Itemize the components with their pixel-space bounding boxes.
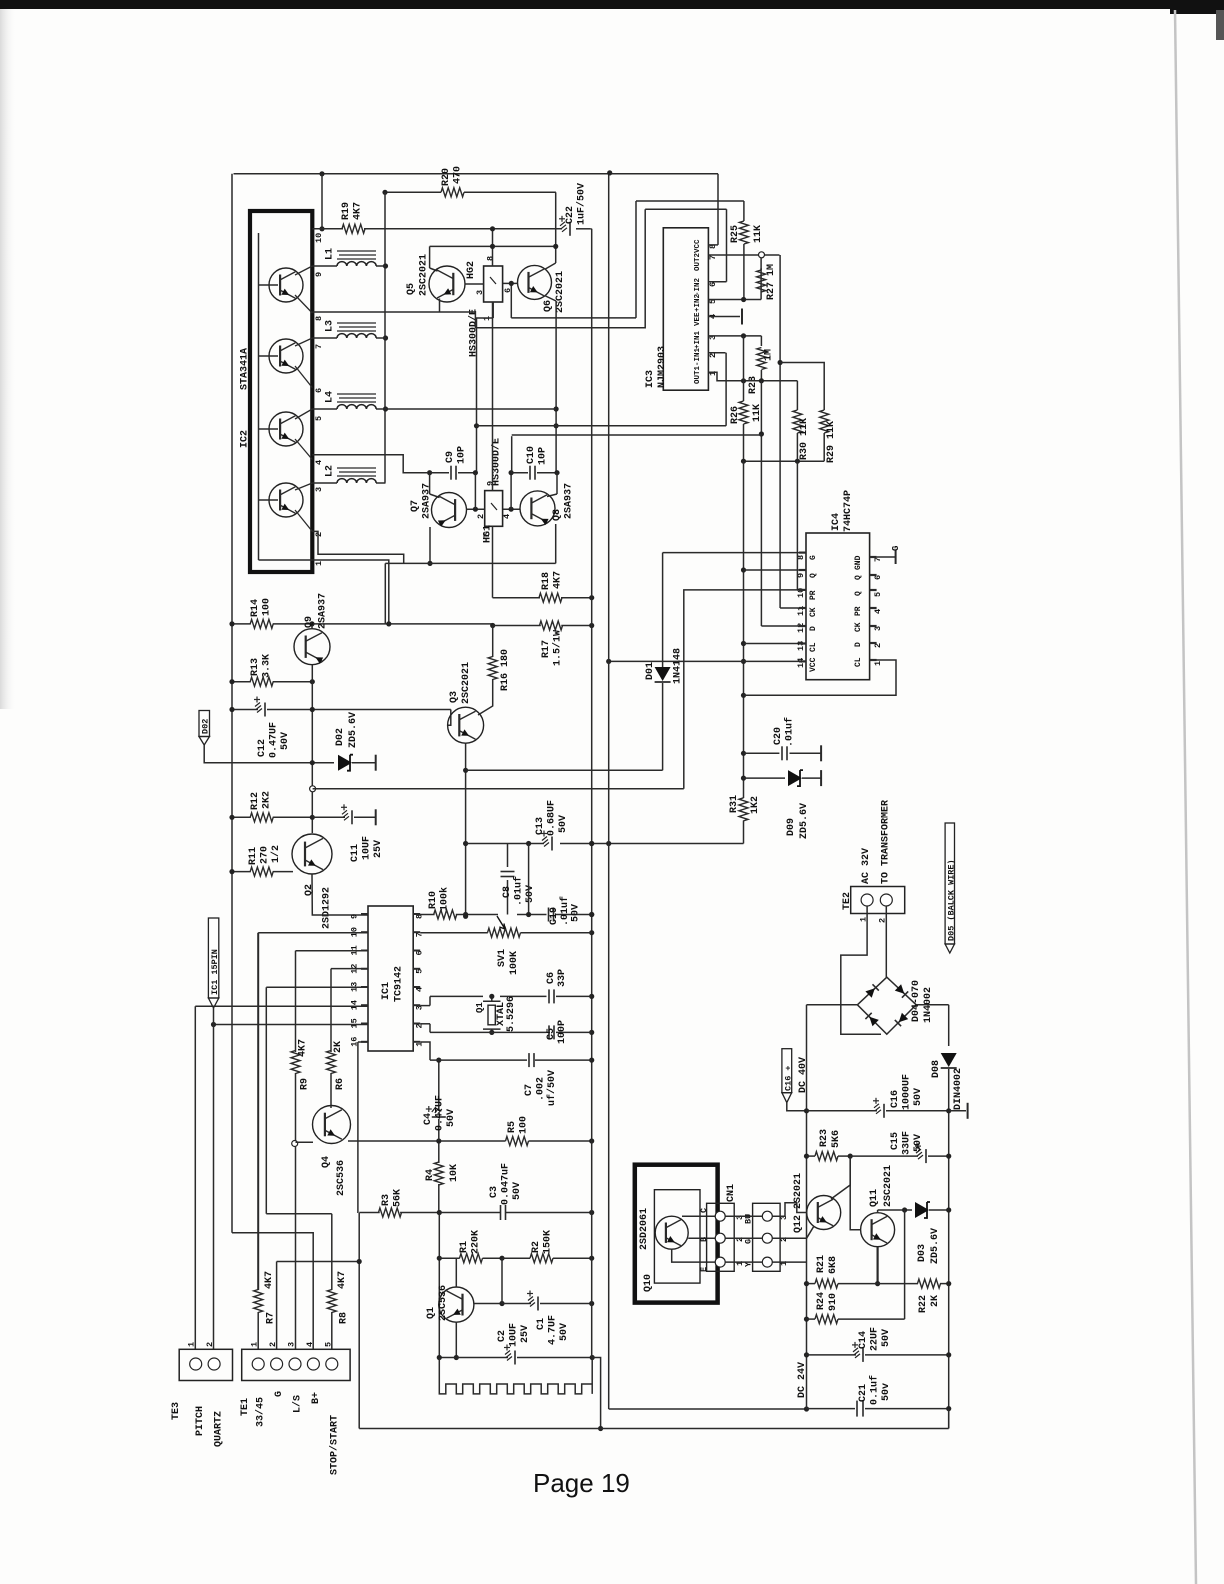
node: collector rail right junction xyxy=(553,244,558,249)
diode D01 1N4148 xyxy=(662,553,664,667)
svg-text:R23: R23 xyxy=(819,1129,830,1147)
svg-text:Q5: Q5 xyxy=(406,283,417,295)
wire: IC1 pin16 to R3/G junction xyxy=(358,1041,368,1043)
svg-text:Q8: Q8 xyxy=(552,509,563,521)
svg-text:10UF: 10UF xyxy=(362,836,373,860)
node: L3 junction xyxy=(383,335,388,340)
wire: R30R29 bus to pin10 join xyxy=(796,461,798,590)
wire: Q10 leads to CN1 xyxy=(682,1215,716,1217)
svg-text:.01uf: .01uf xyxy=(784,717,796,747)
capacitor C14 22UF xyxy=(853,1348,860,1358)
wire: C2 line to bottom rail xyxy=(592,1358,600,1429)
wire: VCC drop to IC3 pin8 xyxy=(717,174,719,245)
node: R29 tap xyxy=(778,360,783,365)
svg-text:1.5/1W: 1.5/1W xyxy=(552,630,564,666)
wire: XTAL rail1 y=996.4 xyxy=(429,996,431,1005)
svg-text:R11: R11 xyxy=(248,847,259,865)
wire: IC1 pin12 to R6 xyxy=(331,968,368,970)
capacitor C4 xyxy=(438,1060,440,1111)
svg-text:14: 14 xyxy=(796,658,806,668)
resistor R26 11K xyxy=(743,336,745,401)
resistor R9 4K7 xyxy=(291,1051,300,1074)
svg-text:4K7: 4K7 xyxy=(298,1039,309,1057)
svg-text:AC 32V: AC 32V xyxy=(861,848,872,884)
wire: IC4 pin9 line xyxy=(744,569,807,571)
wire: IC3 pin4 VEE terminator xyxy=(708,316,740,318)
svg-text:CN1: CN1 xyxy=(726,1184,737,1202)
svg-text:ZD5.6V: ZD5.6V xyxy=(799,803,810,839)
bus: raw supply x=948.7 xyxy=(948,1005,950,1046)
svg-text:TE3: TE3 xyxy=(171,1402,182,1420)
wire: HG2 pin1 vertical down xyxy=(492,302,494,318)
svg-text:Q11: Q11 xyxy=(869,1189,880,1207)
svg-text:B+: B+ xyxy=(311,1392,322,1404)
svg-text:R16 180: R16 180 xyxy=(500,649,511,691)
node: C20 tap xyxy=(741,751,746,756)
svg-text:L3: L3 xyxy=(325,320,336,332)
svg-text:5K6: 5K6 xyxy=(831,1130,842,1148)
svg-text:50v: 50v xyxy=(881,1383,892,1401)
svg-text:+IN2: +IN2 xyxy=(694,293,702,312)
wire: line A to IC3 -IN1 xyxy=(477,425,727,427)
svg-text:D05 (BALCK WIRE): D05 (BALCK WIRE) xyxy=(947,859,957,941)
transistor Q10 2SD2061 xyxy=(655,1216,688,1249)
svg-text:2SC536: 2SC536 xyxy=(438,1285,449,1321)
wire: Q1 collector xyxy=(455,1258,457,1287)
diode D08 DIN4002 xyxy=(941,1053,957,1067)
wire: CN1 interconnects xyxy=(725,1215,762,1217)
inductor L1 xyxy=(312,265,337,267)
svg-text:11K: 11K xyxy=(752,404,763,422)
wire: D01 return line y=770.3 xyxy=(466,769,663,771)
svg-text:3.3K: 3.3K xyxy=(262,654,273,678)
svg-text:PR: PR xyxy=(809,590,818,600)
svg-text:TC9142: TC9142 xyxy=(394,966,405,1002)
node: pin13 tap xyxy=(741,641,746,646)
Q10 module thick box xyxy=(635,1165,718,1303)
resistor R4 10K xyxy=(434,1162,443,1185)
svg-text:D03: D03 xyxy=(917,1244,928,1262)
capacitor C5 100P xyxy=(548,1025,550,1039)
svg-text:R26: R26 xyxy=(730,406,741,424)
svg-text:PR: PR xyxy=(854,606,863,616)
svg-text:R13: R13 xyxy=(250,658,261,676)
wire: IC3 pin6 -IN2 xyxy=(708,281,726,283)
svg-text:L/S: L/S xyxy=(292,1395,304,1413)
svg-text:Q4: Q4 xyxy=(321,1156,332,1168)
wire: coil common bus x=385 xyxy=(384,192,386,482)
svg-text:10P: 10P xyxy=(457,446,468,464)
svg-text:50V: 50V xyxy=(512,1182,523,1200)
capacitor C9 xyxy=(430,472,449,474)
resistor R6 2K xyxy=(330,969,332,1052)
wire: Q1 base line with C1 xyxy=(474,1303,502,1305)
svg-text:150K: 150K xyxy=(543,1230,554,1254)
wire: Q6 collector to R20 rail xyxy=(555,192,557,263)
wire: C14 line y=1354.9 xyxy=(804,1352,809,1357)
svg-text:DC 40V: DC 40V xyxy=(798,1057,809,1093)
wire: D01 to IC4 pin8 xyxy=(663,552,806,554)
crystal Q1 XTAL xyxy=(483,1000,501,1002)
svg-text:C1: C1 xyxy=(536,1318,547,1330)
wire: Q9 emitter vertical xyxy=(311,665,313,833)
wire: IC1 pin14 PITCH xyxy=(195,1005,368,1007)
wire: HG1 pin9 pin7 vertical xyxy=(492,302,494,491)
svg-text:470: 470 xyxy=(453,166,464,184)
wire: IC3 pin5 +IN2 xyxy=(708,299,761,301)
svg-text:TO TRANSFORMER: TO TRANSFORMER xyxy=(881,800,892,884)
svg-text:C21: C21 xyxy=(858,1384,869,1402)
svg-text:R22: R22 xyxy=(918,1295,929,1313)
wire: Q7 base to HG1 pin2 xyxy=(467,508,485,510)
IC1 pin stubs xyxy=(361,913,368,915)
svg-text:2K2: 2K2 xyxy=(262,791,273,809)
svg-text:Q: Q xyxy=(854,591,863,596)
wire: B+ rail to TE1 pin4 xyxy=(232,1233,313,1350)
transistor Q6 2SC2021 xyxy=(518,265,552,299)
capacitor C6 33P xyxy=(548,989,550,1003)
svg-text:56K: 56K xyxy=(393,1189,404,1207)
wire: IC2 pin2 jog to emitter rail xyxy=(312,531,403,563)
svg-text:C13: C13 xyxy=(535,817,546,835)
Q10 inner rect xyxy=(654,1190,700,1283)
wire: Q5 base to HG2 pin3 xyxy=(465,283,484,285)
ground bar after C16 xyxy=(949,1110,966,1112)
svg-text:TE1: TE1 xyxy=(240,1398,251,1416)
wire: OUT1 bus down x=761.4 xyxy=(760,381,762,626)
svg-text:910: 910 xyxy=(828,1293,839,1311)
wire: CN1 pin2 to Q12 emitter xyxy=(772,1226,814,1238)
svg-text:Q2: Q2 xyxy=(304,884,315,896)
wire: line B from Q8 base node xyxy=(511,436,513,473)
wire: bottom rail xyxy=(359,1428,949,1430)
svg-text:2K: 2K xyxy=(333,1041,344,1053)
svg-text:C19: C19 xyxy=(549,907,560,925)
svg-text:G: G xyxy=(891,546,901,551)
resistor R20 xyxy=(441,188,464,197)
svg-text:2SA937: 2SA937 xyxy=(422,483,433,519)
wire: IC2 pin1 to Q9 rail xyxy=(312,560,389,624)
wire: Q5 emitter rail to IC2 pin8 xyxy=(312,311,475,313)
node: junction top border xyxy=(319,171,324,176)
svg-text:1: 1 xyxy=(314,561,324,566)
wire: Q7 emitter xyxy=(429,527,431,563)
capacitor C10 xyxy=(511,472,528,474)
wire: Q11 collector / D03 line xyxy=(877,1210,879,1213)
wire: C7 line y=1060.1 xyxy=(420,1042,430,1060)
svg-text:R17: R17 xyxy=(541,640,552,658)
node: bus dots x=591.7 xyxy=(589,841,594,846)
svg-text:GND: GND xyxy=(854,555,863,570)
svg-text:C2: C2 xyxy=(497,1330,508,1342)
svg-text:R24: R24 xyxy=(816,1292,827,1310)
svg-text:2SD1292: 2SD1292 xyxy=(322,887,333,929)
IC2 internal transistor 1 xyxy=(269,268,303,302)
svg-text:Q3: Q3 xyxy=(449,691,460,703)
wire: Q5 emitter sense to -IN2 xyxy=(475,209,645,328)
node: L4 junction xyxy=(383,406,388,411)
svg-text:22UF: 22UF xyxy=(870,1327,881,1351)
node: pin9 tap xyxy=(741,567,746,572)
svg-text:50V: 50V xyxy=(558,815,569,833)
svg-text:L4: L4 xyxy=(325,391,336,403)
node: phase node junction xyxy=(554,423,559,428)
resistor R11 xyxy=(232,871,251,873)
svg-text:-IN1: -IN1 xyxy=(694,347,702,366)
svg-text:SV1: SV1 xyxy=(497,949,508,967)
wire: L/S vertical with R9 xyxy=(295,951,297,1052)
resistor R16 180 xyxy=(492,626,494,658)
transistor Q11 2SC2021 xyxy=(861,1213,895,1247)
capacitor C3 xyxy=(439,1212,500,1214)
svg-text:R6: R6 xyxy=(335,1078,346,1090)
IC2 internal base rail xyxy=(258,233,260,552)
svg-text:1: 1 xyxy=(873,661,883,666)
node: junction line-A xyxy=(474,423,479,428)
svg-text:Q6: Q6 xyxy=(543,300,554,312)
transistor Q12 2SC2021 xyxy=(807,1196,841,1230)
svg-text:IC1 15PIN: IC1 15PIN xyxy=(210,949,220,995)
svg-text:50V: 50V xyxy=(525,885,536,903)
wire: C21 line y=1408.6 xyxy=(807,1408,856,1410)
flag C16 + xyxy=(782,1049,792,1093)
svg-text:STA341A: STA341A xyxy=(240,348,251,390)
wire: R3 line y=1212.5 xyxy=(359,1212,380,1214)
potentiometer SV1 100K xyxy=(488,928,521,937)
svg-text:4.7UF: 4.7UF xyxy=(548,1315,559,1345)
wire: Q11 base xyxy=(850,1156,860,1230)
svg-text:PITCH: PITCH xyxy=(195,1406,206,1436)
svg-text:VEE: VEE xyxy=(694,312,702,326)
svg-text:220K: 220K xyxy=(471,1230,482,1254)
svg-text:D: D xyxy=(809,626,818,631)
IC3 NJM2903 box xyxy=(663,228,708,390)
svg-text:uf/50V: uf/50V xyxy=(546,1070,558,1106)
svg-text:+IN1: +IN1 xyxy=(694,330,702,349)
IC4 74HC74P box xyxy=(806,533,870,680)
svg-text:2SD2061: 2SD2061 xyxy=(639,1208,650,1250)
svg-text:C15: C15 xyxy=(890,1132,901,1150)
svg-text:L1: L1 xyxy=(325,248,336,260)
wire: Q3 base C12 line handled above / Q3 emitter down xyxy=(465,743,467,916)
svg-text:Q9: Q9 xyxy=(304,616,315,628)
svg-text:R4: R4 xyxy=(425,1169,436,1181)
svg-text:50V: 50V xyxy=(559,1323,570,1341)
capacitor C13 xyxy=(542,837,549,847)
resistor R23 5K6 xyxy=(815,1152,838,1161)
svg-text:33P: 33P xyxy=(557,969,568,987)
svg-text:IC4: IC4 xyxy=(831,513,842,531)
wire: IC3 +IN2 feed line y=201 xyxy=(636,200,744,202)
svg-text:C16 +: C16 + xyxy=(784,1065,794,1091)
svg-text:4: 4 xyxy=(873,609,883,614)
resistor R21 6K8 xyxy=(815,1279,838,1288)
svg-text:CL: CL xyxy=(809,642,818,652)
node: C9 right junction xyxy=(473,470,478,475)
svg-text:NJM2903: NJM2903 xyxy=(657,346,668,388)
wire: Q4 emitter line xyxy=(348,1140,506,1142)
svg-text:B: B xyxy=(699,1237,709,1242)
svg-text:50V: 50V xyxy=(913,1088,924,1106)
inductor L4 xyxy=(312,408,337,410)
wire: IC3 pin1 OUT1 xyxy=(708,372,797,381)
wire: Q6 base sense to +IN2 xyxy=(511,317,636,319)
svg-text:ZD5.6V: ZD5.6V xyxy=(930,1228,941,1264)
svg-text:C12: C12 xyxy=(257,739,268,757)
wire: rail y=843.5 xyxy=(466,843,544,845)
svg-text:QUARTZ: QUARTZ xyxy=(214,1411,225,1447)
wire: Q2 emitter to IC1 pin9 xyxy=(312,874,368,915)
svg-text:8: 8 xyxy=(486,256,496,261)
svg-text:R7: R7 xyxy=(266,1312,277,1324)
wire: OUT2 bus down xyxy=(779,255,781,608)
svg-text:14: 14 xyxy=(350,1000,360,1010)
svg-text:10: 10 xyxy=(314,233,324,243)
IC4 pin stubs left xyxy=(799,551,806,553)
svg-text:G: G xyxy=(274,1391,285,1397)
svg-text:C22: C22 xyxy=(565,206,576,224)
svg-text:R12: R12 xyxy=(250,792,261,810)
IC2 internal transistor 2 xyxy=(269,339,303,373)
wire: IC4 pin14 line xyxy=(609,660,806,662)
svg-text:R10: R10 xyxy=(428,891,439,909)
svg-text:100P: 100P xyxy=(557,1020,568,1044)
wire: R18 line xyxy=(493,597,541,599)
wire: HG1 pin4 to Q8 base xyxy=(503,508,520,510)
svg-text:100K: 100K xyxy=(509,951,520,975)
zener D03 ZD5.6V xyxy=(915,1202,929,1218)
bus: vertical x=591.7 xyxy=(591,229,593,1357)
wire: IC3 pin3 +IN1 xyxy=(708,335,761,337)
svg-text:10P: 10P xyxy=(538,447,549,465)
svg-text:C6: C6 xyxy=(546,972,557,984)
wire: IC1 pin15 QUARTZ xyxy=(214,1024,369,1026)
svg-text:50V: 50V xyxy=(913,1134,924,1152)
capacitor C21 0.1uf xyxy=(856,1401,858,1417)
svg-text:5.5296: 5.5296 xyxy=(506,996,517,1032)
svg-text:CK: CK xyxy=(809,607,818,617)
svg-text:9: 9 xyxy=(350,914,360,919)
resistor R25 xyxy=(743,201,745,221)
svg-text:C: C xyxy=(699,1208,709,1213)
svg-text:100: 100 xyxy=(519,1116,530,1134)
svg-text:100: 100 xyxy=(262,598,273,616)
svg-text:R25: R25 xyxy=(730,225,741,243)
connector CN1 box1 xyxy=(707,1203,735,1271)
svg-text:Q1: Q1 xyxy=(426,1307,437,1319)
svg-text:4: 4 xyxy=(502,514,512,519)
wire: R24 line y=1319.1 xyxy=(804,1317,809,1322)
resistor R12 xyxy=(232,816,251,818)
svg-text:6: 6 xyxy=(314,388,324,393)
svg-text:C3: C3 xyxy=(489,1186,500,1198)
svg-text:Q10: Q10 xyxy=(643,1274,654,1292)
svg-text:0.68UF: 0.68UF xyxy=(547,800,558,836)
resistor R27 1M xyxy=(760,268,762,299)
svg-text:50V: 50V xyxy=(881,1329,892,1347)
svg-text:50V: 50V xyxy=(446,1109,457,1127)
wire: Q9 line y=623.9 continuation xyxy=(295,623,493,625)
svg-text:R18: R18 xyxy=(541,572,552,590)
wire: HG2 pin8 vertical xyxy=(492,229,494,266)
svg-text:R29 11K: R29 11K xyxy=(826,421,837,463)
svg-text:1K2: 1K2 xyxy=(750,796,761,814)
svg-text:25V: 25V xyxy=(373,840,384,858)
resistor R19 xyxy=(342,224,365,233)
node: pin14 tap xyxy=(741,659,746,664)
svg-text:HS300D/E: HS300D/E xyxy=(468,309,480,357)
wire: bridge left to DC40V bus xyxy=(807,1004,858,1006)
svg-text:.01uf: .01uf xyxy=(513,876,525,906)
inductor L2 xyxy=(312,482,337,484)
svg-text:100k: 100k xyxy=(439,887,451,911)
svg-text:Q7: Q7 xyxy=(410,500,421,512)
transistor Q2 2SD1292 xyxy=(292,834,332,874)
flag D02 xyxy=(199,711,210,737)
svg-text:R2: R2 xyxy=(531,1241,542,1253)
resistor R1 220K xyxy=(460,1254,483,1263)
transistor Q3 2SC2021 xyxy=(448,710,451,726)
svg-text:Page 19: Page 19 xyxy=(533,1468,630,1498)
svg-text:1: 1 xyxy=(250,1342,260,1347)
svg-text:2: 2 xyxy=(708,353,718,358)
svg-text:D02: D02 xyxy=(201,719,211,734)
wire: left border rail (B+) xyxy=(231,174,233,1233)
svg-text:C7: C7 xyxy=(524,1084,535,1096)
resistor R30 11K xyxy=(796,381,798,410)
svg-text:3: 3 xyxy=(475,290,485,295)
flag D05 (BALCK WIRE) xyxy=(945,823,954,944)
wire: IC1 pin10 to TE1 33/45 xyxy=(258,932,368,934)
transistor Q8 2SA937 xyxy=(556,473,558,494)
svg-text:10K: 10K xyxy=(449,1164,460,1182)
svg-text:D08: D08 xyxy=(931,1060,942,1078)
wire: mid bus x=743.5 down xyxy=(743,461,745,798)
wire: R20 rail y=192.3 xyxy=(385,191,441,193)
svg-text:5: 5 xyxy=(323,1342,333,1347)
svg-text:C8: C8 xyxy=(502,886,513,898)
svg-text:74HC74P: 74HC74P xyxy=(843,490,854,532)
wire: right bus to bottom rail xyxy=(948,1409,950,1429)
svg-text:DIN4002: DIN4002 xyxy=(953,1068,964,1110)
svg-text:4: 4 xyxy=(305,1342,315,1347)
connector TE3 xyxy=(179,1349,232,1380)
wire: C2 line y=1357.5 xyxy=(439,1357,508,1359)
connector CN1 box2 xyxy=(753,1203,781,1271)
svg-text:13: 13 xyxy=(796,641,806,651)
svg-text:33UF: 33UF xyxy=(902,1131,913,1155)
node: D09 tap xyxy=(741,776,746,781)
svg-text:IC3: IC3 xyxy=(645,370,656,388)
resistor R14 xyxy=(232,623,251,625)
svg-text:0.47UF: 0.47UF xyxy=(435,1095,446,1131)
node: C10 left junction xyxy=(509,470,514,475)
wire: R21 R22 line y=1283.6 xyxy=(804,1281,809,1286)
wire: IC4 pin1 loop xyxy=(744,660,897,695)
svg-text:C14: C14 xyxy=(858,1331,869,1349)
wire: Q11 emitter xyxy=(876,1247,878,1284)
svg-text:IC1: IC1 xyxy=(381,982,392,1000)
wire: bridge right to +raw bus xyxy=(916,1004,949,1006)
transistor Q9 2SA937 xyxy=(294,629,330,665)
capacitor C11 xyxy=(312,816,345,818)
svg-text:33/45: 33/45 xyxy=(255,1397,267,1427)
resistor R5 100 xyxy=(506,1137,529,1146)
resistor R17 xyxy=(540,621,563,630)
svg-text:R9: R9 xyxy=(300,1078,311,1090)
svg-text:CL: CL xyxy=(854,657,863,667)
scan artifact: right page edge line xyxy=(1175,10,1196,1584)
